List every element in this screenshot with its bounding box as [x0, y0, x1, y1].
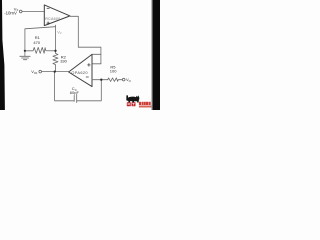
wire A2 plus-input ground run	[25, 27, 56, 51]
resistor R5 100 zigzag	[108, 78, 123, 82]
U2 minus	[86, 76, 89, 78]
wire A1 output to elbow	[70, 16, 78, 47]
svg-text:100: 100	[110, 69, 117, 74]
svg-text:VO: VO	[126, 77, 132, 83]
wire bottom feedback run	[77, 80, 102, 101]
svg-text:OPA620: OPA620	[71, 70, 88, 75]
wire A2 output to R5	[92, 79, 108, 81]
wire compensation drop	[55, 72, 74, 101]
junction dot Vo1/R2	[54, 70, 56, 72]
logo red character block 1	[127, 102, 136, 106]
op-amp U2 OPA620 triangle (points left)	[69, 54, 92, 86]
left black wedge	[0, 0, 5, 110]
svg-text:V2: V2	[57, 29, 62, 35]
U2 plus	[87, 64, 90, 66]
op-amp U1 RCA600 triangle	[44, 5, 70, 26]
junction dot V1	[54, 50, 56, 52]
resistor R2 330 zigzag	[53, 51, 58, 72]
U1 minus	[47, 7, 50, 9]
resistor R1 470 zigzag	[25, 47, 56, 53]
junction dot output feedback	[100, 79, 102, 81]
svg-text:VO1: VO1	[31, 69, 38, 75]
svg-text:-10mV: -10mV	[4, 11, 17, 16]
logo red character block 2	[132, 102, 136, 106]
wire A2 top corner stub	[92, 53, 101, 55]
svg-text:RCA600: RCA600	[45, 17, 60, 21]
svg-text:60pF: 60pF	[70, 90, 80, 95]
right black bar	[153, 0, 160, 110]
logo red text row 2	[139, 106, 151, 108]
svg-text:330: 330	[60, 59, 67, 64]
svg-text:470: 470	[33, 40, 40, 45]
wire input Vx to A1 inverting input	[22, 11, 44, 13]
wire into A2 noninverting input	[92, 63, 101, 65]
node A junction V1 drop	[55, 25, 57, 51]
ground	[24, 51, 26, 56]
logo red text row 1	[139, 102, 151, 105]
capacitor Cc plates	[73, 95, 75, 101]
logo cat silhouette	[126, 95, 139, 103]
wire Vo1 line	[42, 71, 69, 73]
junction dot ground R1 node	[24, 50, 26, 52]
op-amp input polarity marks	[47, 8, 91, 77]
terminal input circle	[19, 10, 22, 13]
wire across to A2 column	[78, 47, 101, 64]
terminal Vo circle	[122, 78, 125, 81]
U1 plus	[47, 22, 50, 24]
terminal Vo1 circle	[39, 70, 42, 73]
